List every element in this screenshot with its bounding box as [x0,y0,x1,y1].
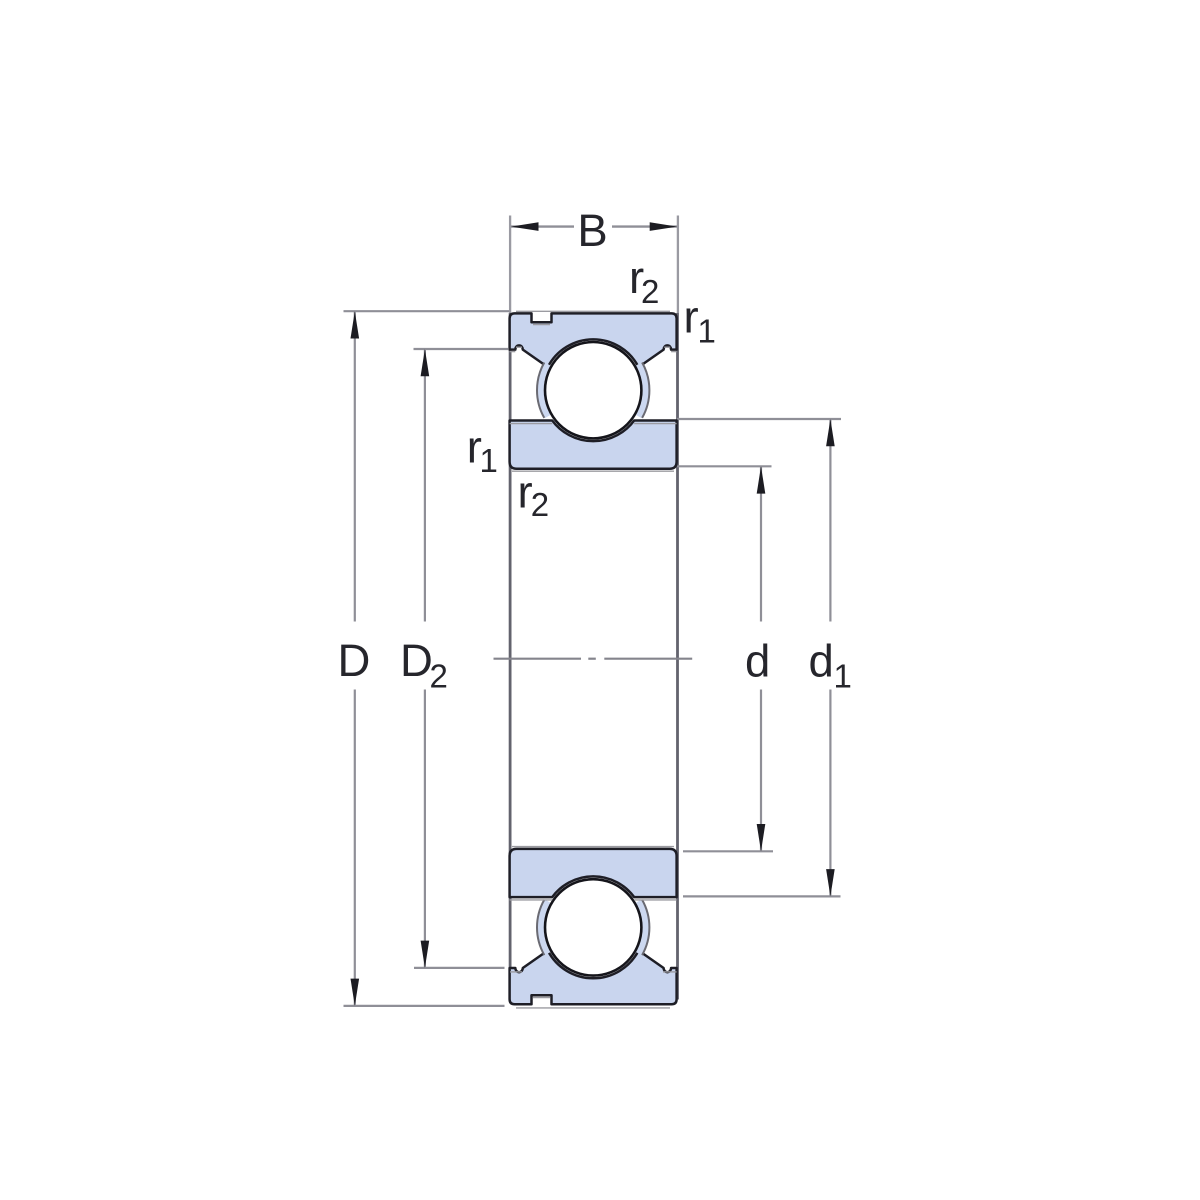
svg-text:d: d [809,636,834,687]
extension line D bottom [344,1005,505,1007]
bearing side face line right [676,313,679,1000]
bearing cross-section top half [510,313,677,468]
svg-text:1: 1 [834,658,852,695]
bearing cross-section bottom half (mirrored) [510,849,677,1004]
svg-text:1: 1 [698,313,716,350]
arrow B left [511,222,539,231]
arrow d up [757,466,766,493]
dimension line B [511,225,677,227]
svg-text:2: 2 [531,486,549,523]
extension line d top [677,465,772,467]
central axis line [494,658,693,660]
extension line D2 bottom [414,967,505,969]
dimension line D2 [424,349,426,968]
svg-text:B: B [577,205,607,256]
extension line d1 top [677,418,841,420]
dimension line d1 [829,419,831,896]
arrow D2 up [421,349,430,376]
arrow d down [757,824,766,851]
svg-text:2: 2 [641,273,659,310]
B extension line right [677,216,679,314]
arrow D2 down [421,941,430,968]
arrow d1 down [826,869,835,896]
svg-text:2: 2 [430,658,448,695]
bearing side face line left [509,313,512,1000]
arrow B right [650,222,678,231]
dimension line D [354,311,356,1005]
extension line d bottom [683,850,773,852]
extension line D2 top [414,348,509,350]
edge shadow lines top section [510,311,677,471]
dimension line d [760,467,762,852]
svg-text:d: d [745,636,770,687]
edge shadow lines bottom section [510,847,677,1008]
svg-text:r: r [684,292,699,343]
B extension line left [509,216,511,314]
svg-text:D: D [338,635,371,686]
arrow D up [351,311,360,338]
extension line D top [344,310,510,312]
arrow d1 up [826,419,835,446]
extension line d1 bottom [683,895,841,897]
arrow D down [351,979,360,1006]
svg-text:1: 1 [480,442,498,479]
svg-text:D: D [400,635,433,686]
